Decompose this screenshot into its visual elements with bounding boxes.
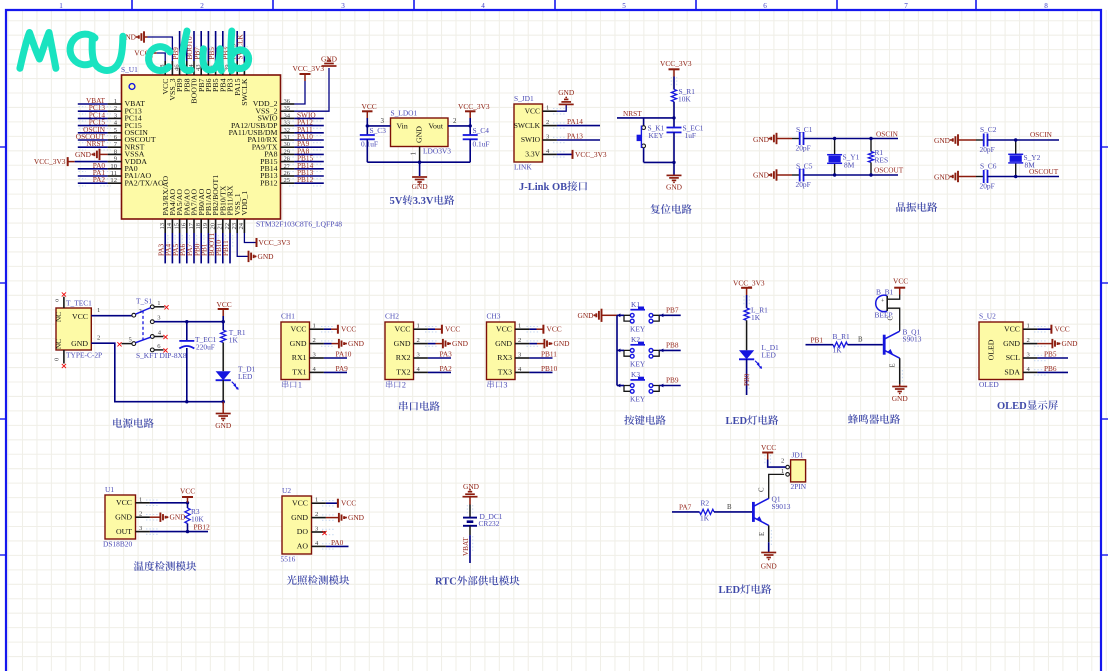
edge ticks bbox=[0, 146, 6, 148]
svg-text:RX1: RX1 bbox=[292, 353, 307, 362]
svg-text:1: 1 bbox=[315, 497, 318, 504]
svg-text:2: 2 bbox=[417, 337, 420, 344]
svg-text:7: 7 bbox=[904, 2, 908, 10]
svg-text:B: B bbox=[727, 504, 732, 511]
U2 pins bbox=[312, 502, 326, 504]
ground GND at U2 bbox=[326, 517, 339, 519]
connector T_TEC1 TYPE-C body bbox=[56, 308, 91, 350]
svg-text:U1: U1 bbox=[105, 485, 114, 494]
svg-text:GND: GND bbox=[215, 421, 232, 430]
svg-text:PA2/TX/AO: PA2/TX/AO bbox=[125, 178, 165, 187]
svg-text:STM32F103C8T6_LQFP48: STM32F103C8T6_LQFP48 bbox=[256, 220, 342, 229]
svg-text:T_TEC1: T_TEC1 bbox=[66, 299, 92, 308]
LED L_D1 bbox=[746, 320, 748, 350]
svg-text:PB11: PB11 bbox=[541, 350, 557, 359]
caption light module bbox=[287, 575, 297, 585]
svg-text:PB8: PB8 bbox=[666, 340, 679, 349]
svg-text:VCC: VCC bbox=[394, 324, 410, 333]
ground GND at OLED bbox=[1037, 343, 1052, 345]
connector CH1 body bbox=[281, 322, 310, 380]
svg-text:5V: 5V bbox=[390, 196, 403, 207]
T_TEC1 NC pins bbox=[63, 297, 65, 308]
svg-text:PB0: PB0 bbox=[743, 373, 751, 386]
wire CH3 TX PB10 bbox=[529, 371, 552, 373]
svg-text:VCC_3V3: VCC_3V3 bbox=[34, 157, 66, 166]
svg-text:S_U1: S_U1 bbox=[121, 65, 138, 74]
wire OSCOUT 2 bbox=[988, 176, 1060, 178]
svg-text:CR232: CR232 bbox=[479, 519, 500, 528]
svg-text:220uF: 220uF bbox=[196, 343, 215, 352]
crystal S_Y1 8M bbox=[834, 139, 836, 155]
wire emitter to GND bbox=[899, 358, 901, 384]
svg-text:RTC: RTC bbox=[435, 577, 457, 588]
wire PA7 base bbox=[672, 511, 700, 513]
chip U1 top pins bbox=[164, 61, 166, 75]
ground GND buzzer bbox=[899, 384, 901, 387]
svg-text:GND: GND bbox=[258, 252, 275, 261]
svg-text:VCC: VCC bbox=[547, 325, 562, 334]
svg-text:TX1: TX1 bbox=[292, 368, 306, 377]
svg-text:PB7: PB7 bbox=[666, 305, 679, 314]
svg-text:1: 1 bbox=[97, 307, 100, 314]
wire VBAT bbox=[469, 526, 471, 535]
wire JD1 pin3 PA13 bbox=[557, 139, 600, 141]
wire LED to PB0 bbox=[746, 359, 748, 395]
svg-text:0.1uF: 0.1uF bbox=[361, 140, 378, 149]
wire OLED SCL PB5 bbox=[1037, 357, 1068, 359]
capacitor S_EC1 1uF bbox=[673, 118, 675, 128]
svg-text:VCC: VCC bbox=[290, 324, 306, 333]
svg-text:Vout: Vout bbox=[428, 122, 443, 131]
switch pin5 stub bbox=[122, 343, 132, 345]
svg-text:GND: GND bbox=[71, 339, 88, 348]
ground GND at U1 pin8 VSSA bbox=[100, 153, 108, 155]
ground GND at CH3 bbox=[529, 343, 537, 345]
svg-text:GND: GND bbox=[892, 394, 909, 403]
svg-text:SCL: SCL bbox=[1006, 353, 1021, 362]
wire K3 to bus bbox=[617, 385, 624, 387]
svg-text:GND: GND bbox=[348, 339, 365, 348]
wire NRST node bbox=[617, 117, 674, 119]
wire K2 to PB8 bbox=[659, 349, 681, 351]
connector CH2 body bbox=[385, 322, 414, 380]
svg-text:2: 2 bbox=[546, 119, 549, 126]
svg-text:C: C bbox=[888, 316, 895, 321]
svg-text:TX3: TX3 bbox=[498, 368, 512, 377]
svg-text:3: 3 bbox=[503, 381, 507, 390]
svg-text:T_S1: T_S1 bbox=[136, 297, 152, 306]
caption reset circuit bbox=[651, 204, 661, 214]
svg-text:SWCLK: SWCLK bbox=[514, 121, 541, 130]
svg-text:S_KFT DIP-8X8: S_KFT DIP-8X8 bbox=[136, 351, 187, 360]
svg-text:VCC: VCC bbox=[72, 312, 88, 321]
svg-text:VCC: VCC bbox=[341, 499, 356, 508]
battery D_DC1 CR232 bbox=[463, 517, 477, 519]
right MCU net wires bbox=[294, 117, 323, 119]
svg-text:NC: NC bbox=[55, 312, 63, 322]
svg-text:GND: GND bbox=[291, 513, 308, 522]
connector S_U2 OLED body bbox=[979, 322, 1023, 380]
svg-text:2: 2 bbox=[97, 335, 100, 342]
svg-text:PA2: PA2 bbox=[440, 364, 453, 373]
svg-text:B: B bbox=[858, 337, 863, 344]
svg-text:PB12: PB12 bbox=[260, 178, 277, 187]
wire CH2 TX PA2 bbox=[428, 371, 451, 373]
regulator S_LDO1 body bbox=[391, 118, 449, 147]
ground GND at U1 pin35 VSS_2 bbox=[294, 68, 329, 111]
LED T_D1 bbox=[222, 343, 224, 372]
ground GND at U1 pin47 VSS_3 bbox=[148, 37, 173, 61]
svg-text:KEY: KEY bbox=[649, 131, 665, 140]
svg-text:SDA: SDA bbox=[1004, 368, 1020, 377]
wire buzzer to VCC bbox=[887, 295, 900, 300]
svg-text:1: 1 bbox=[417, 323, 420, 330]
wire CH3 RX PB11 bbox=[529, 357, 552, 359]
svg-text:RX2: RX2 bbox=[396, 353, 411, 362]
resistor R3 10K bbox=[187, 503, 189, 508]
svg-text:GND: GND bbox=[934, 136, 951, 145]
power VCC at CH3 bbox=[529, 328, 536, 330]
svg-text:PA9: PA9 bbox=[336, 364, 349, 373]
chip U1 right pins bbox=[281, 103, 295, 105]
svg-text:RX3: RX3 bbox=[497, 353, 512, 362]
wire U1 VCC to pullup bbox=[150, 502, 188, 504]
wire K1 to bus bbox=[617, 314, 624, 316]
resistor T_R1 1K bbox=[222, 322, 224, 331]
svg-text:VCC: VCC bbox=[116, 498, 132, 507]
caption buzzer circuit bbox=[848, 414, 858, 424]
svg-text:VCC: VCC bbox=[761, 443, 776, 452]
ground GND at JD1 pin1 bbox=[557, 104, 566, 111]
svg-text:NRST: NRST bbox=[86, 139, 105, 148]
svg-text:4: 4 bbox=[481, 2, 485, 10]
wire switch pin3 to VCC node bbox=[154, 321, 223, 323]
svg-text:VBAT: VBAT bbox=[462, 537, 470, 556]
svg-text:R2: R2 bbox=[701, 499, 710, 508]
ground GND below LDO bbox=[412, 176, 427, 178]
svg-text:KEY: KEY bbox=[630, 359, 646, 368]
svg-text:GND: GND bbox=[452, 339, 469, 348]
svg-text:S_C3: S_C3 bbox=[370, 126, 387, 135]
pushbutton S_K1 KEY bbox=[643, 118, 645, 126]
chip U1 bottom pins bbox=[164, 219, 166, 233]
svg-text:3: 3 bbox=[381, 117, 385, 125]
svg-text:PA14: PA14 bbox=[567, 117, 583, 126]
ground GND at U1 pin23 VSS_1 bbox=[237, 233, 248, 256]
power VCC at CH1 bbox=[324, 328, 331, 330]
svg-text:OUT: OUT bbox=[116, 527, 132, 536]
svg-text:GND: GND bbox=[558, 88, 575, 97]
wire K3 to PB9 bbox=[659, 385, 681, 387]
svg-text:LED: LED bbox=[238, 372, 253, 381]
svg-text:5516: 5516 bbox=[281, 555, 296, 564]
sensor U2 5516 body bbox=[282, 496, 312, 554]
svg-text:VCC: VCC bbox=[1055, 325, 1070, 334]
S_U2 pins bbox=[1023, 328, 1037, 330]
svg-text:E: E bbox=[759, 532, 766, 536]
wire emitter led2 bbox=[768, 525, 770, 542]
svg-text:1: 1 bbox=[139, 496, 142, 503]
svg-text:OLED: OLED bbox=[979, 380, 999, 389]
svg-text:GND: GND bbox=[75, 150, 92, 159]
wire JD1 pin2 PA14 bbox=[557, 125, 600, 127]
chip U1 STM32F103C8T6 body bbox=[122, 75, 281, 219]
svg-text:GND: GND bbox=[290, 339, 307, 348]
U2 DO pin unconnected bbox=[322, 531, 326, 535]
wire CH1 RX PA10 bbox=[324, 357, 347, 359]
connector S_JD1 body bbox=[514, 104, 543, 162]
svg-text:TX2: TX2 bbox=[396, 368, 410, 377]
svg-text:PA7: PA7 bbox=[679, 503, 692, 512]
svg-text:S_U2: S_U2 bbox=[979, 312, 996, 321]
ground GND at CH1 bbox=[324, 343, 332, 345]
svg-text:GND: GND bbox=[415, 126, 424, 143]
svg-text:1K: 1K bbox=[833, 346, 843, 355]
svg-text:RES: RES bbox=[875, 156, 889, 165]
wire Vout to VCC_3V3 bbox=[448, 125, 470, 127]
svg-text:2: 2 bbox=[139, 511, 142, 518]
svg-text:SWIO: SWIO bbox=[521, 135, 541, 144]
svg-text:3.3V: 3.3V bbox=[525, 150, 540, 159]
svg-text:VCC_3V3: VCC_3V3 bbox=[293, 64, 325, 73]
svg-text:GND: GND bbox=[753, 171, 770, 180]
svg-text:2: 2 bbox=[1027, 337, 1030, 344]
svg-text:2: 2 bbox=[315, 511, 318, 518]
switch pin4 stub bbox=[154, 336, 163, 338]
wire U2 AO PA0 bbox=[326, 545, 349, 547]
svg-text:PB9: PB9 bbox=[666, 376, 679, 385]
svg-text:3.3V: 3.3V bbox=[413, 196, 434, 207]
ground GND led2 bbox=[761, 552, 776, 554]
svg-text:NRST: NRST bbox=[623, 109, 642, 118]
svg-text:VCC: VCC bbox=[180, 487, 195, 496]
svg-text:PA3: PA3 bbox=[440, 350, 453, 359]
svg-text:S9013: S9013 bbox=[772, 502, 791, 511]
wire OLED SDA PB6 bbox=[1037, 371, 1068, 373]
svg-text:o: o bbox=[54, 299, 61, 302]
svg-text:VCC: VCC bbox=[341, 325, 356, 334]
switch pin6 stub bbox=[154, 349, 163, 351]
wire CH1 TX PA9 bbox=[324, 371, 347, 373]
bottom MCU net wires bbox=[164, 233, 166, 263]
svg-text:GND: GND bbox=[761, 562, 778, 571]
svg-text:PB5: PB5 bbox=[1044, 350, 1057, 359]
svg-text:CH2: CH2 bbox=[385, 312, 399, 321]
svg-text:VCC_3V3: VCC_3V3 bbox=[575, 150, 607, 159]
U1 pins bbox=[136, 502, 150, 504]
svg-text:VCC: VCC bbox=[217, 300, 232, 309]
svg-text:1K: 1K bbox=[700, 514, 710, 523]
CH1 pins bbox=[310, 328, 324, 330]
svg-text:OSCIN: OSCIN bbox=[876, 130, 899, 139]
svg-text:S_C2: S_C2 bbox=[980, 125, 997, 134]
svg-text:PB11: PB11 bbox=[222, 240, 230, 256]
svg-text:1: 1 bbox=[410, 152, 418, 156]
svg-text:2: 2 bbox=[402, 381, 406, 390]
svg-text:VCC_3V3: VCC_3V3 bbox=[733, 279, 765, 288]
crystal S_Y2 8M bbox=[1015, 140, 1017, 154]
switch pin1 stub bbox=[154, 306, 164, 308]
svg-text:U2: U2 bbox=[282, 486, 291, 495]
svg-text:1: 1 bbox=[1027, 323, 1030, 330]
svg-text:OLED: OLED bbox=[997, 401, 1027, 412]
connector CH3 body bbox=[487, 322, 516, 380]
svg-text:1: 1 bbox=[518, 323, 521, 330]
svg-text:NC: NC bbox=[55, 339, 63, 349]
power VCC_3V3 at JD1 pin4 bbox=[557, 153, 573, 155]
svg-text:LDO3V3: LDO3V3 bbox=[423, 147, 451, 156]
svg-text:GND: GND bbox=[554, 339, 571, 348]
power VCC_3V3 at U1 pin9 VDDA bbox=[67, 157, 69, 166]
wire LDO ground rail bbox=[419, 147, 421, 163]
svg-text:PB6: PB6 bbox=[1044, 364, 1057, 373]
ground GND power circuit bbox=[222, 402, 224, 414]
svg-text:1: 1 bbox=[313, 323, 316, 330]
svg-text:1: 1 bbox=[157, 300, 160, 307]
ground GND at CH2 bbox=[428, 343, 436, 345]
caption temperature module bbox=[134, 561, 144, 571]
power VCC at U2 bbox=[326, 502, 338, 504]
svg-text:GND: GND bbox=[495, 339, 512, 348]
svg-text:VCC: VCC bbox=[496, 324, 512, 333]
CH2 pins bbox=[414, 328, 428, 330]
svg-text:LED: LED bbox=[726, 416, 748, 427]
wire key bus bbox=[616, 315, 618, 385]
resistor R1 RES bbox=[870, 139, 872, 152]
wire buzzer to collector bbox=[887, 308, 900, 331]
svg-text:VDD_1: VDD_1 bbox=[240, 191, 249, 216]
svg-text:S_JD1: S_JD1 bbox=[514, 94, 534, 103]
chip U1 left pins bbox=[108, 103, 122, 105]
svg-text:1: 1 bbox=[59, 2, 63, 10]
svg-text:1: 1 bbox=[546, 105, 549, 112]
wire VCC to Vin bbox=[366, 118, 368, 126]
transistor B_Q1 S9013 bbox=[883, 335, 886, 355]
wire K2 to bus bbox=[617, 349, 624, 351]
svg-text:8M: 8M bbox=[1025, 161, 1036, 170]
svg-text:PB12: PB12 bbox=[194, 523, 211, 532]
svg-text:KEY: KEY bbox=[630, 395, 646, 404]
power VCC_3V3 at U1 pin24 VDD_1 bbox=[244, 233, 256, 243]
svg-text:1K: 1K bbox=[751, 313, 761, 322]
svg-text:GND: GND bbox=[321, 55, 338, 64]
svg-text:LED: LED bbox=[762, 351, 777, 360]
power VCC at OLED bbox=[1037, 328, 1051, 330]
svg-text:GND: GND bbox=[115, 512, 132, 521]
svg-text:2: 2 bbox=[313, 337, 316, 344]
svg-text:1: 1 bbox=[298, 381, 302, 390]
resistor B_R1 1K bbox=[833, 342, 848, 347]
power VCC at U1 pin48 bbox=[157, 53, 166, 61]
ruler band dividers bbox=[131, 0, 133, 10]
svg-text:0.1uF: 0.1uF bbox=[473, 140, 490, 149]
svg-text:LINK: LINK bbox=[514, 163, 532, 172]
svg-text:VCC: VCC bbox=[1004, 324, 1020, 333]
svg-text:C: C bbox=[759, 487, 766, 492]
svg-text:PA10: PA10 bbox=[336, 350, 352, 359]
top MCU net wires bbox=[179, 31, 181, 61]
svg-text:Vin: Vin bbox=[397, 122, 408, 131]
svg-text:VCC: VCC bbox=[893, 277, 908, 286]
caption key circuit bbox=[624, 415, 634, 425]
svg-text:LED: LED bbox=[719, 585, 741, 596]
svg-text:TYPE-C-2P: TYPE-C-2P bbox=[66, 351, 102, 360]
svg-text:VCC: VCC bbox=[445, 325, 460, 334]
wire base B bbox=[806, 344, 834, 346]
svg-text:6: 6 bbox=[763, 2, 767, 10]
wire CH2 RX PA3 bbox=[428, 357, 451, 359]
wire OSCIN 1 bbox=[804, 138, 899, 140]
svg-text:S_C6: S_C6 bbox=[980, 162, 997, 171]
svg-text:S9013: S9013 bbox=[903, 335, 922, 344]
svg-text:E: E bbox=[890, 363, 897, 367]
svg-text:PA0: PA0 bbox=[331, 538, 344, 547]
svg-text:10K: 10K bbox=[678, 95, 691, 104]
sensor U1 DS18B20 body bbox=[105, 495, 136, 539]
svg-text:2PIN: 2PIN bbox=[791, 482, 807, 491]
svg-text:S_LDO1: S_LDO1 bbox=[391, 109, 418, 118]
svg-text:VCC: VCC bbox=[362, 102, 377, 111]
svg-text:PA2: PA2 bbox=[93, 175, 106, 184]
svg-text:OSCOUT: OSCOUT bbox=[874, 166, 904, 175]
svg-text:OSCIN: OSCIN bbox=[1030, 130, 1053, 139]
CH3 pins bbox=[515, 328, 529, 330]
connector S_JD1 pins bbox=[543, 110, 557, 112]
svg-text:GND: GND bbox=[1062, 339, 1079, 348]
svg-text:J-Link OB: J-Link OB bbox=[519, 182, 567, 193]
left MCU net wires bbox=[78, 103, 108, 105]
svg-text:5: 5 bbox=[622, 2, 626, 10]
caption crystal circuit bbox=[896, 202, 905, 212]
svg-text:GND: GND bbox=[666, 183, 683, 192]
svg-text:1K: 1K bbox=[229, 336, 239, 345]
transistor Q1 S9013 bbox=[752, 502, 755, 522]
svg-text:GND: GND bbox=[170, 513, 187, 522]
svg-text:PB1: PB1 bbox=[811, 336, 824, 345]
svg-text:B_R1: B_R1 bbox=[833, 332, 851, 341]
svg-text:GND: GND bbox=[463, 482, 480, 491]
wire U1 OUT PB12 bbox=[150, 531, 208, 533]
svg-text:GND: GND bbox=[412, 182, 429, 191]
svg-text:GND: GND bbox=[753, 135, 770, 144]
caption serial circuit bbox=[399, 401, 408, 411]
svg-text:2: 2 bbox=[781, 458, 784, 465]
svg-text:PA13: PA13 bbox=[567, 132, 583, 141]
connector JD1 2PIN body bbox=[791, 460, 806, 482]
svg-text:1uF: 1uF bbox=[685, 131, 697, 140]
svg-text:VCC_3V3: VCC_3V3 bbox=[660, 59, 692, 68]
wire OSCOUT 1 bbox=[804, 174, 899, 176]
svg-text:2: 2 bbox=[518, 337, 521, 344]
wire K1 to PB7 bbox=[659, 314, 681, 316]
svg-text:OLED: OLED bbox=[987, 339, 996, 360]
svg-text:DO: DO bbox=[297, 527, 309, 536]
svg-text:VCC_3V3: VCC_3V3 bbox=[458, 102, 490, 111]
svg-text:JD1: JD1 bbox=[792, 451, 804, 460]
power VCC_3V3 at U1 pin36 VDD_2 bbox=[294, 81, 305, 104]
wire OSCIN 2 bbox=[988, 139, 1060, 141]
logo MCUclub bbox=[20, 33, 56, 69]
resistor R2 1K bbox=[700, 509, 715, 514]
svg-text:KEY: KEY bbox=[630, 324, 646, 333]
svg-text:S_C4: S_C4 bbox=[473, 126, 490, 135]
svg-text:GND: GND bbox=[934, 173, 951, 182]
svg-text:2: 2 bbox=[453, 117, 457, 125]
svg-text:PB10: PB10 bbox=[541, 364, 558, 373]
svg-text:PB12: PB12 bbox=[297, 175, 314, 184]
svg-text:DS18B20: DS18B20 bbox=[103, 540, 132, 549]
svg-text:VCC_3V3: VCC_3V3 bbox=[259, 238, 291, 247]
